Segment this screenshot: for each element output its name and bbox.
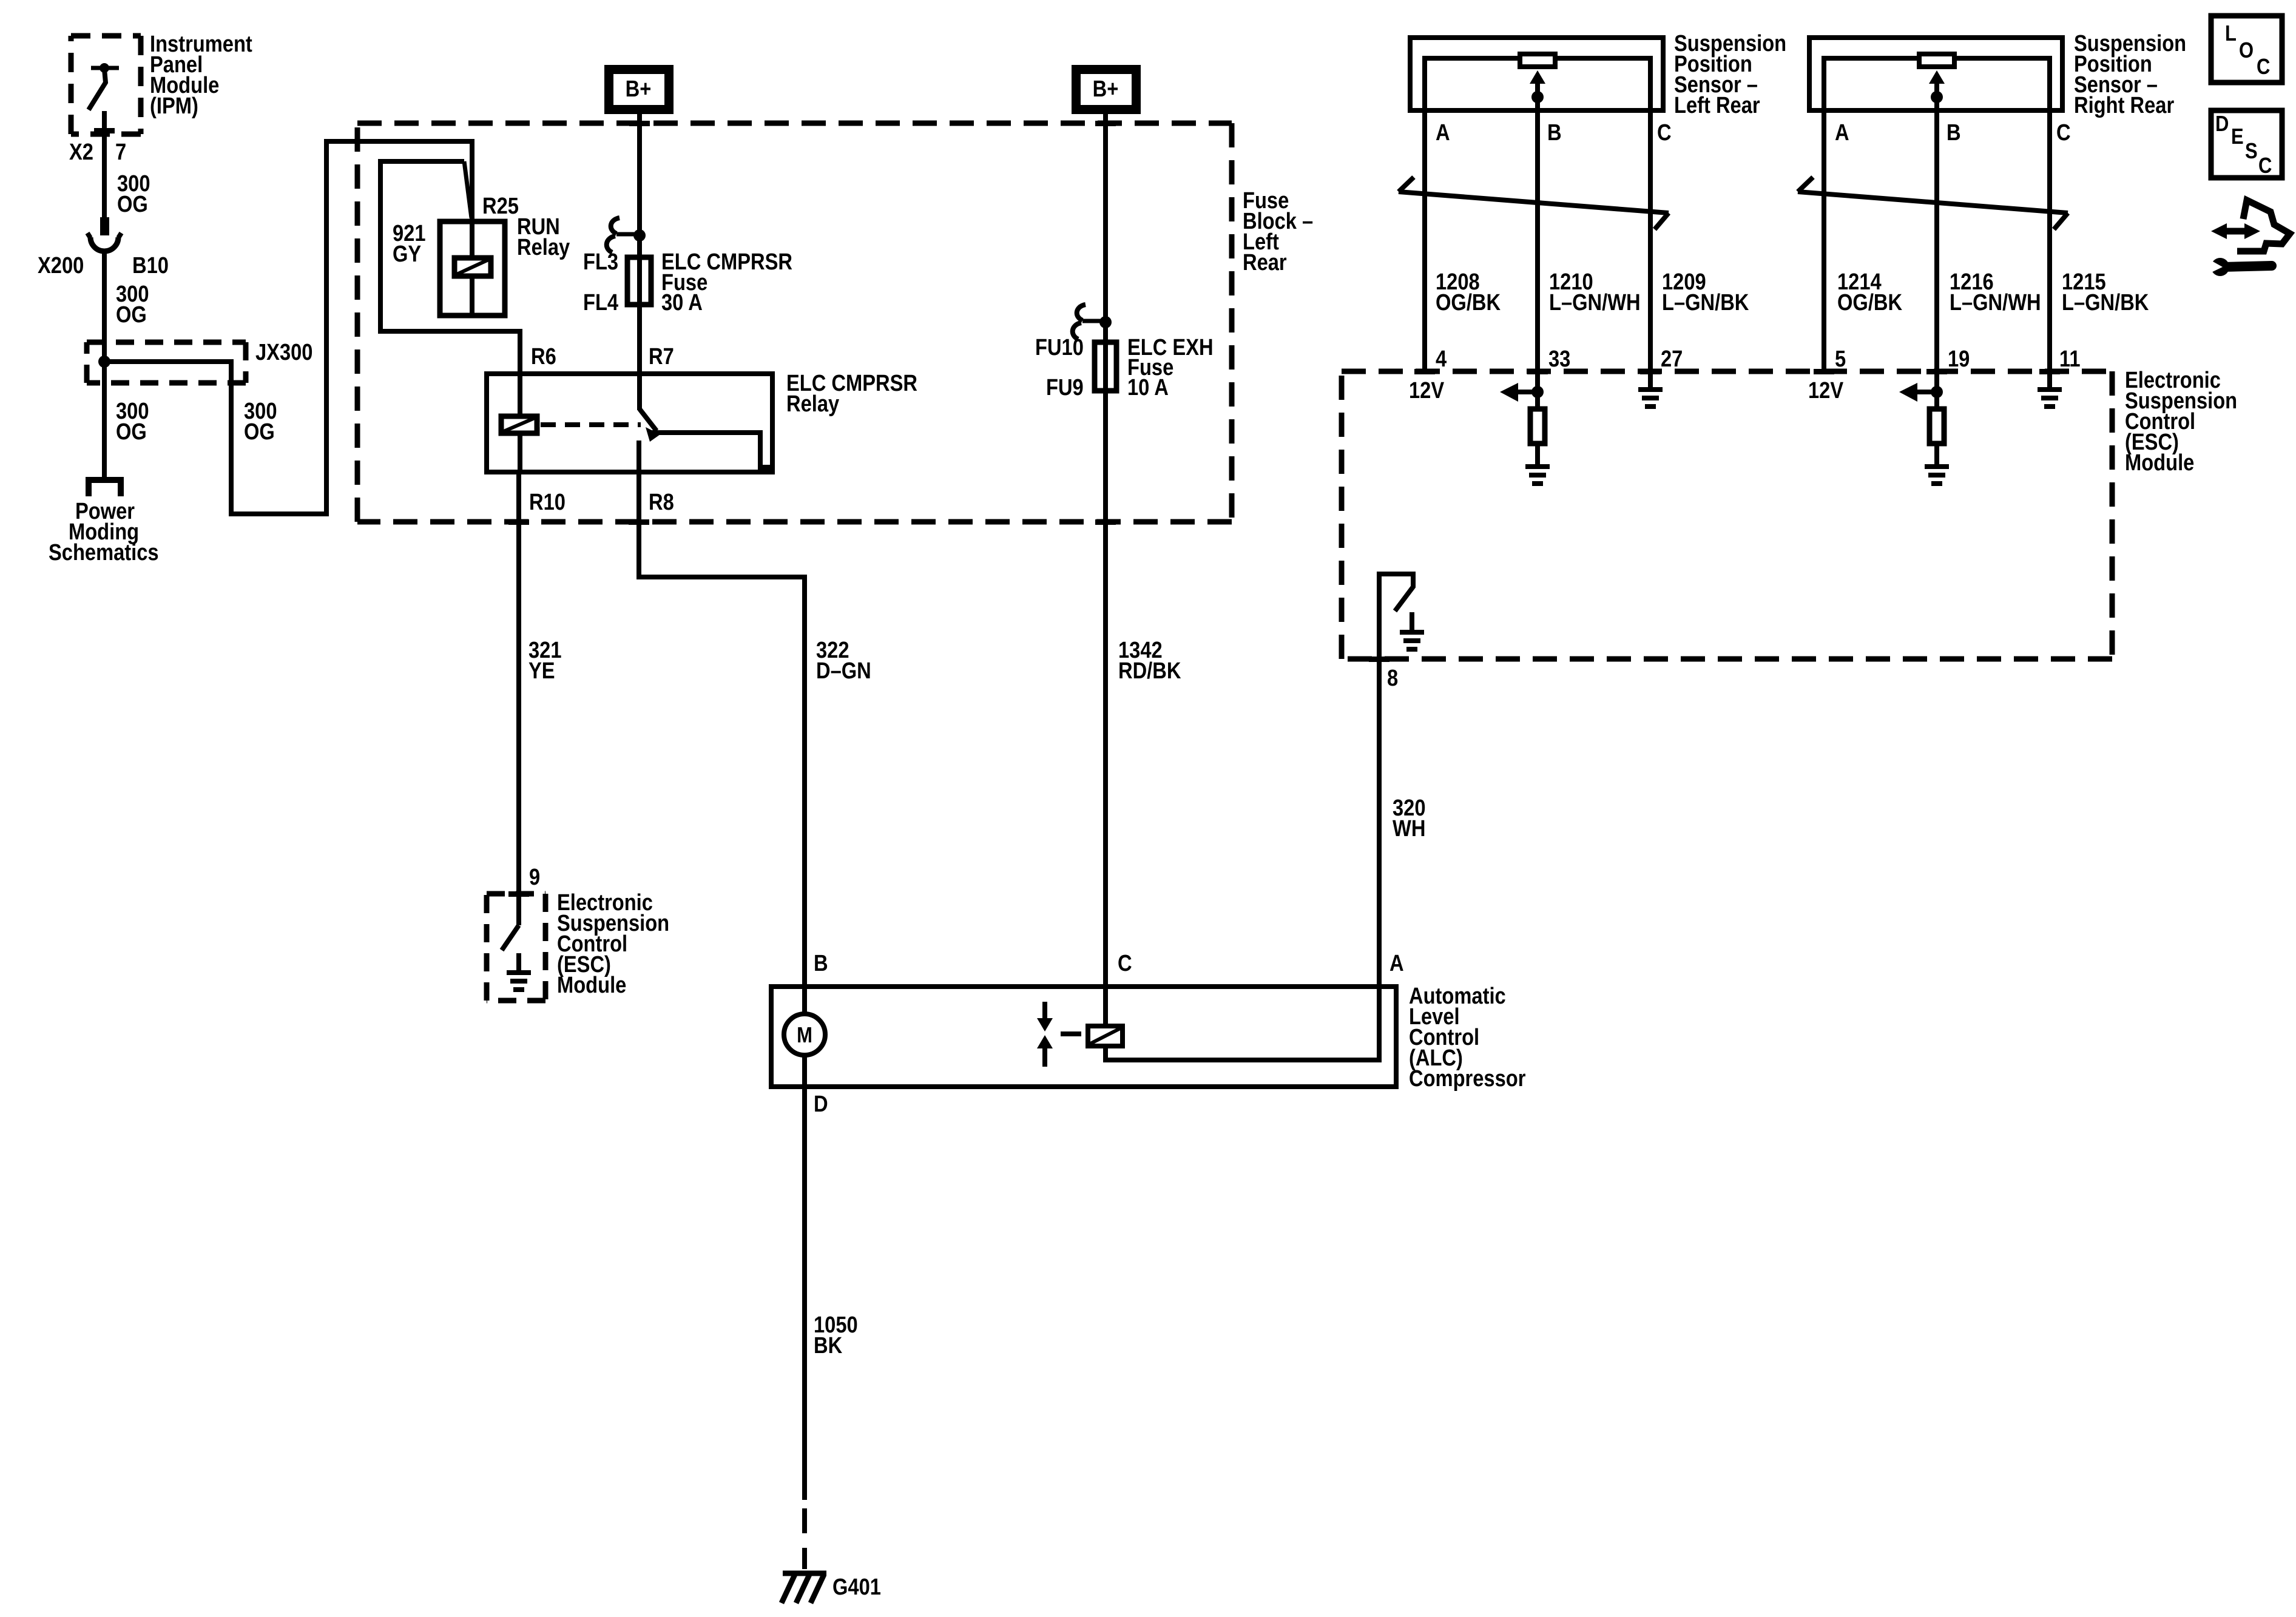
- svg-text:C: C: [1118, 950, 1132, 976]
- ground (pin 33): [1535, 446, 1540, 466]
- RUN relay R25 coil box: [440, 221, 505, 316]
- ground (pin 11): [2047, 371, 2052, 389]
- svg-text:B: B: [1947, 120, 1961, 146]
- svg-text:WH: WH: [1393, 815, 1425, 842]
- wire B+ 2 to compressor C: [1103, 114, 1108, 984]
- relay actuation dashed link: [541, 422, 641, 427]
- svg-text:M: M: [797, 1024, 812, 1048]
- suppression diodes: [1042, 1002, 1047, 1019]
- svg-text:8: 8: [1387, 665, 1398, 691]
- svg-text:S: S: [2245, 140, 2258, 164]
- svg-text:L: L: [2225, 22, 2237, 46]
- LOC box: [2211, 16, 2282, 83]
- relay contact: [637, 371, 642, 410]
- relay coil (ELC CMPRSR): [518, 371, 522, 414]
- connector X200 male pin: [100, 217, 109, 235]
- connector hook FL3: [616, 232, 637, 237]
- svg-text:11: 11: [2059, 346, 2081, 372]
- svg-text:R25: R25: [482, 193, 519, 219]
- svg-text:OG/BK: OG/BK: [1436, 289, 1501, 316]
- svg-text:L–GN/WH: L–GN/WH: [1950, 289, 2041, 316]
- ground (ESC module internal): [516, 953, 521, 971]
- svg-text:B+: B+: [1093, 76, 1119, 102]
- svg-text:30 A: 30 A: [661, 289, 703, 316]
- svg-text:Relay: Relay: [517, 234, 570, 260]
- svg-text:R8: R8: [649, 489, 674, 515]
- ESC module dashed box (main): [1342, 371, 2112, 659]
- dashed wire to ground: [802, 1508, 807, 1533]
- svg-text:Compressor: Compressor: [1409, 1065, 1526, 1092]
- svg-text:Module: Module: [2125, 450, 2194, 476]
- wire JX300 to Power Moding: [102, 362, 107, 477]
- svg-text:4: 4: [1436, 346, 1447, 372]
- svg-text:E: E: [2231, 125, 2244, 149]
- ground (pin 19): [1934, 446, 1939, 466]
- svg-text:GY: GY: [393, 241, 422, 267]
- svg-text:9: 9: [529, 864, 540, 890]
- ALC compressor box: [771, 987, 1396, 1087]
- svg-text:Relay: Relay: [786, 391, 839, 417]
- wire X200 to JX300: [102, 251, 107, 362]
- wire JX300 branch to fuse block: [104, 141, 472, 514]
- svg-text:FU9: FU9: [1046, 374, 1084, 400]
- tick R10 at fuse block bottom: [508, 519, 529, 525]
- wire slant into coil box: [464, 161, 471, 218]
- JX300 dashed junction box: [87, 342, 246, 383]
- svg-text:10 A: 10 A: [1127, 374, 1169, 400]
- svg-text:D: D: [2215, 112, 2229, 137]
- wire R10 to ESC module: [516, 474, 521, 894]
- resistor (pin 33): [1530, 409, 1545, 444]
- wires A B C (right sensor): [1822, 113, 1826, 371]
- svg-text:12V: 12V: [1409, 377, 1444, 403]
- svg-text:L–GN/WH: L–GN/WH: [1549, 289, 1641, 316]
- svg-text:L–GN/BK: L–GN/BK: [2062, 289, 2149, 316]
- svg-text:B10: B10: [132, 252, 169, 279]
- Suspension Position Sensor Left Rear: [1410, 38, 1663, 113]
- svg-text:Rear: Rear: [1243, 249, 1287, 275]
- svg-text:19: 19: [1948, 346, 1970, 372]
- wire R8 to compressor B: [639, 474, 805, 984]
- svg-text:R10: R10: [529, 489, 566, 515]
- RUN relay 921 GY loop wire: [380, 161, 520, 371]
- svg-text:X200: X200: [38, 252, 84, 279]
- svg-text:YE: YE: [528, 658, 555, 684]
- svg-text:OG: OG: [116, 419, 147, 445]
- ticks pins 4 33 27: [1414, 369, 1435, 374]
- svg-text:D–GN: D–GN: [816, 658, 871, 684]
- service icon double arrow: [2222, 228, 2249, 235]
- wire 320 WH (ESC pin 8 to compressor A): [1377, 659, 1382, 984]
- Suspension Position Sensor Right Rear: [1809, 38, 2062, 113]
- ELC CMPRSR relay box: [487, 374, 772, 472]
- dashed link diode-coil: [1061, 1031, 1081, 1036]
- switch pin 8 (ESC internal): [1379, 574, 1413, 659]
- svg-text:27: 27: [1661, 346, 1683, 372]
- svg-text:B: B: [814, 950, 828, 976]
- RUN relay coil: [454, 258, 491, 276]
- svg-text:7: 7: [115, 139, 126, 165]
- svg-text:C: C: [2257, 55, 2270, 79]
- tick at fuse block top (B+ 1): [629, 121, 650, 126]
- svg-text:R7: R7: [649, 343, 674, 370]
- wire D to G401: [802, 1089, 807, 1500]
- motor M: [802, 984, 807, 1013]
- fuse FU10/FU9 ELC EXH 10A: [1095, 342, 1116, 391]
- ESC module dashed box (lower left): [487, 894, 545, 1001]
- connector hook FU10: [1082, 319, 1103, 323]
- svg-text:JX300: JX300: [255, 339, 312, 365]
- svg-text:BK: BK: [814, 1332, 843, 1359]
- svg-text:OG: OG: [117, 191, 148, 217]
- harness break (left sensor): [1399, 177, 1669, 229]
- signal arrow pin 33: [1535, 371, 1540, 407]
- relay internal output wire: [648, 433, 775, 467]
- tick R8 at fuse block bottom: [629, 519, 649, 525]
- resistor (pin 19): [1930, 409, 1944, 444]
- B+ terminal 1: [604, 65, 674, 114]
- tick pin 8: [1369, 657, 1389, 662]
- node FU10: [1099, 316, 1112, 328]
- wire B+ to FL3 fuse: [637, 114, 642, 371]
- svg-text:33: 33: [1548, 346, 1570, 372]
- svg-text:X2: X2: [69, 139, 93, 165]
- ground G401: [783, 1571, 826, 1576]
- svg-text:Schematics: Schematics: [49, 539, 159, 565]
- svg-text:FL4: FL4: [583, 289, 618, 316]
- svg-text:(IPM): (IPM): [150, 93, 198, 119]
- node FL3: [633, 229, 646, 241]
- svg-text:A: A: [1835, 120, 1849, 146]
- svg-text:C: C: [1657, 120, 1672, 146]
- connector X200 female cup: [90, 237, 118, 251]
- svg-text:D: D: [814, 1091, 828, 1117]
- svg-text:G401: G401: [832, 1574, 881, 1600]
- ground (pin 8 switch): [1410, 612, 1414, 632]
- compressor internal wire coil to A: [1106, 984, 1379, 1060]
- ground (pin 27): [1648, 371, 1653, 389]
- svg-text:RD/BK: RD/BK: [1118, 658, 1181, 684]
- wires A B C (left sensor): [1422, 113, 1427, 371]
- Fuse Block dashed box: [357, 123, 1232, 522]
- B+ terminal 2: [1072, 65, 1141, 114]
- tick at fuse block top (B+ 2): [1095, 121, 1116, 126]
- svg-text:12V: 12V: [1808, 377, 1843, 403]
- switch to ground (ESC low side): [516, 894, 521, 925]
- svg-text:Module: Module: [557, 972, 626, 998]
- junction node JX300: [98, 356, 110, 368]
- IPM dashed box: [71, 36, 141, 134]
- off-page connector Power Moding: [89, 480, 121, 496]
- svg-text:OG: OG: [244, 419, 275, 445]
- signal arrow pin 19: [1934, 371, 1939, 407]
- svg-text:A: A: [1436, 120, 1450, 146]
- harness break (right sensor): [1798, 177, 2068, 229]
- svg-text:5: 5: [1835, 346, 1846, 372]
- ticks pins 5 19 11: [1814, 369, 1834, 374]
- svg-text:Left Rear: Left Rear: [1674, 92, 1760, 118]
- svg-text:Right Rear: Right Rear: [2074, 92, 2174, 118]
- svg-text:B+: B+: [626, 76, 652, 102]
- svg-text:OG: OG: [116, 302, 147, 328]
- svg-text:OG/BK: OG/BK: [1837, 289, 1902, 316]
- service icon outline: [2237, 200, 2290, 251]
- svg-text:O: O: [2239, 39, 2254, 63]
- svg-text:L–GN/BK: L–GN/BK: [1662, 289, 1749, 316]
- service icon wrench: [2211, 258, 2229, 276]
- tick pin 9: [508, 891, 529, 897]
- fuse FL3/FL4 ELC CMPRSR 30A: [627, 257, 651, 305]
- pin tick X2/7: [94, 128, 115, 133]
- compressor relay coil: [1103, 984, 1108, 1024]
- tick 1342 at fuse block bottom: [1095, 519, 1116, 525]
- DESC box: [2211, 110, 2282, 178]
- svg-text:A: A: [1389, 950, 1404, 976]
- svg-text:FL3: FL3: [583, 249, 618, 275]
- svg-text:B: B: [1547, 120, 1562, 146]
- wire IPM to X200: [102, 111, 107, 217]
- svg-text:FU10: FU10: [1035, 334, 1084, 360]
- svg-text:C: C: [2056, 120, 2071, 146]
- svg-text:R6: R6: [531, 343, 556, 370]
- svg-text:C: C: [2258, 154, 2272, 178]
- IPM internal switch: [89, 68, 119, 110]
